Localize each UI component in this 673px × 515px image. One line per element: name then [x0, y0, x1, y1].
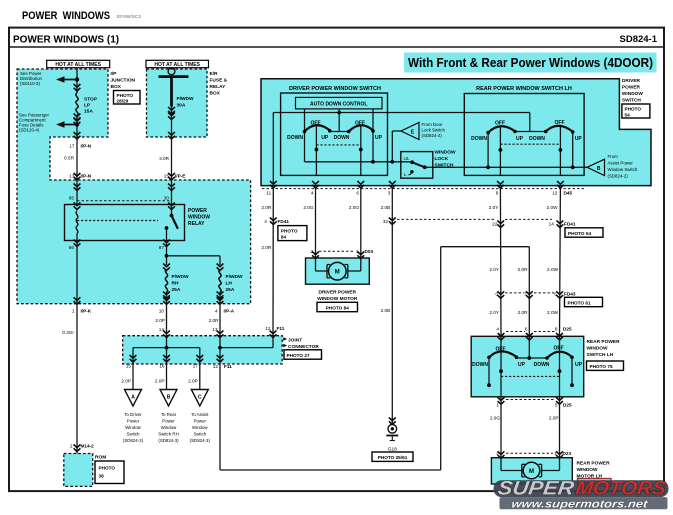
svg-text:16: 16 [159, 364, 165, 369]
svg-text:E/R: E/R [210, 71, 219, 77]
ADC stub right / driver right rocker UP contact [372, 109, 374, 162]
svg-text:WINDOW: WINDOW [188, 215, 210, 221]
feed to center bar [516, 336, 547, 360]
ground G18 [372, 425, 413, 462]
svg-text:To Rear: To Rear [161, 412, 177, 417]
rear motor LH side label [577, 461, 612, 487]
svg-text:STOP: STOP [84, 97, 98, 103]
ADC stub center / common bar [330, 109, 349, 132]
svg-text:L: L [404, 172, 407, 177]
triangle B from assist power window switch [587, 154, 638, 179]
svg-text:LOCK: LOCK [435, 156, 449, 162]
wire 2.0R pin11 down [261, 189, 276, 334]
svg-text:C: C [198, 395, 202, 401]
svg-text:P/WDW: P/WDW [177, 96, 195, 102]
svg-text:30: 30 [164, 195, 170, 200]
svg-text:2.0B: 2.0B [381, 205, 391, 210]
svg-text:D23: D23 [563, 451, 572, 456]
svg-text:(SD824-2): (SD824-2) [123, 438, 144, 443]
wire: left battery feed down I/P junction box [74, 68, 81, 205]
svg-text:15: 15 [126, 364, 132, 369]
svg-text:2.0B: 2.0B [381, 308, 391, 313]
wires into joint connector [163, 303, 223, 361]
rear right rocker switch [529, 120, 582, 176]
joint connector label [283, 337, 321, 359]
wire: right battery feed E/R fuse box [159, 68, 189, 205]
svg-text:DOWN: DOWN [287, 135, 303, 141]
rear switch LH side label [587, 339, 624, 370]
svg-text:86: 86 [69, 245, 75, 250]
svg-text:D45: D45 [564, 191, 573, 196]
svg-text:WINDOW: WINDOW [435, 150, 457, 156]
svg-text:WINDOW: WINDOW [577, 467, 599, 473]
svg-text:2: 2 [496, 451, 499, 456]
svg-text:LH: LH [226, 281, 233, 287]
wire 2.0B pin3 to ground [381, 189, 396, 425]
svg-text:17: 17 [69, 143, 75, 148]
svg-text:PHOTO 54: PHOTO 54 [568, 231, 591, 236]
svg-text:2.0O: 2.0O [349, 205, 360, 210]
svg-text:CONNECTOR: CONNECTOR [288, 344, 319, 350]
svg-text:2.0G: 2.0G [490, 415, 501, 420]
svg-text:I/P-N: I/P-N [81, 173, 92, 178]
svg-text:4: 4 [264, 219, 267, 224]
svg-text:FD41: FD41 [278, 219, 290, 224]
driver motor connector pins 2 / 1 D03 [310, 249, 373, 254]
svg-text:B: B [597, 166, 601, 172]
svg-text:OFF: OFF [355, 120, 365, 126]
svg-text:UP: UP [575, 362, 583, 368]
auto down control U2 [296, 97, 383, 109]
svg-text:I/P: I/P [111, 71, 118, 77]
joint connector internals [130, 331, 277, 363]
svg-text:M: M [529, 469, 534, 475]
svg-text:LP: LP [84, 103, 91, 109]
see passenger compartment fuse details arrow [19, 113, 77, 133]
I/P JUNCTION BOX label [111, 71, 141, 104]
svg-text:PHOTO 27: PHOTO 27 [287, 353, 310, 358]
svg-text:84: 84 [281, 235, 287, 240]
DRIVER POWER WINDOW SWITCH side label [622, 78, 650, 118]
connector FD43 row [495, 291, 602, 306]
driver switch inner box [281, 93, 388, 175]
svg-text:9: 9 [496, 191, 499, 196]
svg-text:D25: D25 [563, 327, 572, 332]
svg-text:AUTO DOWN CONTROL: AUTO DOWN CONTROL [310, 102, 367, 108]
relay pin dashed line [77, 200, 172, 202]
svg-text:BOX: BOX [210, 91, 221, 97]
svg-text:BOX: BOX [111, 84, 122, 90]
svg-text:2.0P: 2.0P [121, 378, 131, 383]
rear lower left rocker [472, 336, 525, 397]
svg-text:25A: 25A [172, 287, 181, 293]
svg-text:WINDOW MOTOR: WINDOW MOTOR [317, 296, 358, 302]
wire 2.0Y rear switch pin9 down [489, 189, 505, 340]
svg-text:ROM: ROM [95, 455, 106, 461]
photo 54 box [565, 228, 603, 237]
svg-text:2.0R: 2.0R [518, 267, 529, 272]
svg-text:1: 1 [554, 451, 557, 456]
master switch connector dashed line [262, 188, 586, 190]
svg-text:22: 22 [492, 221, 498, 226]
svg-text:UP: UP [375, 135, 383, 141]
svg-text:UP: UP [575, 136, 583, 142]
rear rocker contact stubs to common [488, 132, 573, 167]
common return line in driver switch [305, 160, 413, 164]
svg-text:PHOTO 25/61: PHOTO 25/61 [378, 455, 408, 460]
svg-text:4: 4 [496, 327, 499, 332]
triangle C to assist power window switch [190, 390, 211, 444]
svg-text:5: 5 [554, 292, 557, 297]
svg-text:5: 5 [555, 402, 558, 407]
svg-text:(SD824-3): (SD824-3) [158, 438, 179, 443]
svg-text:2.0P: 2.0P [188, 378, 198, 383]
svg-text:POWER WINDOWS: POWER WINDOWS [22, 10, 110, 22]
rear left rocker switch [471, 121, 523, 176]
svg-text:3: 3 [388, 191, 391, 196]
svg-text:2.0P: 2.0P [155, 378, 165, 383]
svg-text:(SD824-2): (SD824-2) [608, 174, 629, 179]
svg-text:RELAY: RELAY [188, 221, 205, 227]
wire 2.0G to rear motor [490, 397, 505, 459]
joint connector cyan box [123, 336, 283, 364]
svg-text:REAR POWER WINDOW SWITCH LH: REAR POWER WINDOW SWITCH LH [476, 86, 572, 92]
rear power window motor LH cyan box [491, 458, 572, 484]
svg-text:OFF: OFF [554, 346, 564, 352]
svg-text:PHOTO 75: PHOTO 75 [590, 364, 613, 369]
svg-text:13: 13 [212, 327, 218, 332]
svg-text:UL: UL [404, 156, 410, 161]
svg-text:Switch RH: Switch RH [158, 432, 179, 437]
svg-text:OFF: OFF [311, 120, 321, 126]
svg-text:1: 1 [496, 402, 499, 407]
svg-text:M14-2: M14-2 [81, 444, 95, 449]
relay coil [74, 184, 81, 247]
svg-text:DRIVER: DRIVER [622, 78, 641, 84]
ADC stub left / driver left rocker DOWN contact [304, 109, 306, 162]
svg-text:2.0R: 2.0R [261, 205, 272, 210]
svg-text:(SD824-2): (SD824-2) [422, 133, 443, 138]
svg-text:OFF: OFF [495, 121, 505, 127]
svg-text:2: 2 [70, 444, 73, 449]
svg-text:6: 6 [356, 191, 359, 196]
svg-text:SWITCH LH: SWITCH LH [587, 352, 614, 358]
rear power window motor LH M2 [501, 458, 560, 479]
svg-text:DOWN: DOWN [472, 362, 488, 368]
driver power window motor M1 [316, 258, 361, 312]
master switch cyan block [261, 79, 651, 186]
wire 12 F11 long run to rear feed [220, 247, 529, 470]
svg-text:WINDOW: WINDOW [622, 91, 644, 97]
svg-text:2.0W: 2.0W [547, 205, 559, 210]
svg-text:10: 10 [159, 309, 165, 314]
svg-text:P/WDW: P/WDW [226, 274, 244, 280]
svg-text:OFF: OFF [496, 346, 506, 352]
HOT AT ALL TIMES box right [146, 60, 209, 68]
svg-text:UP: UP [321, 135, 329, 141]
svg-text:PHOTO: PHOTO [281, 228, 298, 233]
svg-text:MOTORS: MOTORS [574, 478, 667, 500]
banner [404, 53, 657, 73]
svg-text:F11: F11 [277, 326, 285, 331]
relay contact [77, 184, 178, 247]
svg-text:HOT AT ALL TIMES: HOT AT ALL TIMES [154, 62, 200, 68]
wire 2.0R rear feed down [518, 247, 533, 340]
svg-text:Window: Window [125, 425, 141, 430]
svg-text:SWITCH: SWITCH [622, 98, 641, 104]
svg-text:2: 2 [310, 249, 313, 254]
svg-text:POWER WINDOWS (1): POWER WINDOWS (1) [13, 35, 119, 46]
svg-text:POWER: POWER [622, 85, 641, 91]
svg-text:Lock Switch: Lock Switch [422, 128, 446, 133]
svg-text:PHOTO 84: PHOTO 84 [326, 306, 349, 311]
svg-text:14: 14 [549, 221, 555, 226]
svg-text:FUSE &: FUSE & [210, 78, 228, 84]
svg-text:2.0W: 2.0W [547, 310, 559, 315]
E/R FUSE RELAY BOX label [210, 71, 228, 97]
svg-text:JOINT: JOINT [288, 337, 302, 343]
svg-text:F11: F11 [224, 364, 232, 369]
svg-text:From: From [608, 154, 619, 159]
svg-text:To Driver: To Driver [124, 412, 142, 417]
svg-text:UP: UP [516, 136, 524, 142]
svg-text:(SD120-4): (SD120-4) [19, 128, 40, 133]
svg-text:14: 14 [159, 327, 165, 332]
master switch exit chevrons [270, 181, 564, 188]
svg-text:D25: D25 [563, 402, 572, 407]
svg-text:DOWN: DOWN [529, 136, 545, 142]
svg-text:P/WDW: P/WDW [172, 274, 190, 280]
HOT AT ALL TIMES box left [47, 60, 110, 68]
svg-text:POWER: POWER [188, 208, 207, 214]
svg-text:To Assist: To Assist [191, 412, 209, 417]
triangle B to rear power window switch RH [158, 390, 179, 444]
wire 0.3Gr down to ROM [62, 303, 80, 453]
svg-text:DOWN: DOWN [534, 362, 550, 368]
svg-text:2.0R: 2.0R [261, 245, 272, 250]
svg-text:38: 38 [99, 474, 105, 479]
svg-text:From Door: From Door [422, 122, 444, 127]
svg-text:2.0Y: 2.0Y [489, 267, 500, 272]
svg-text:I/P-A: I/P-A [224, 309, 235, 314]
fuse P/WDW RH 25A [163, 264, 189, 305]
svg-text:I/P-N: I/P-N [81, 143, 92, 148]
driver left rocker switch [287, 120, 331, 175]
rocker mechanical link dashed [316, 144, 360, 146]
connector D25 top row [496, 327, 572, 332]
window lock switch S1 [401, 150, 456, 179]
svg-text:85: 85 [69, 195, 75, 200]
svg-text:2.0Y: 2.0Y [489, 205, 500, 210]
rear lower mechanical link dashed [501, 375, 560, 377]
triangle A to driver power window switch [123, 390, 144, 444]
svg-text:12: 12 [552, 191, 558, 196]
svg-text:PHOTO: PHOTO [625, 107, 642, 112]
svg-text:2.0G: 2.0G [303, 205, 314, 210]
ROM cyan box [64, 454, 93, 487]
svg-text:Window: Window [192, 425, 208, 430]
fusible link P/WDW 30A [177, 96, 195, 109]
rear power window switch LH cyan box [471, 336, 584, 397]
svg-text:DRIVER POWER: DRIVER POWER [319, 289, 357, 295]
svg-text:2.0Y: 2.0Y [489, 310, 500, 315]
wire 2.0P to rear motor [549, 397, 563, 459]
svg-text:Window: Window [161, 425, 177, 430]
svg-text:0.5R: 0.5R [64, 156, 75, 161]
power window relay U1 [65, 205, 211, 241]
fuse P/WDW LH 25A [217, 264, 243, 305]
svg-text:UP: UP [518, 362, 526, 368]
svg-text:B: B [167, 395, 171, 401]
svg-text:FD43: FD43 [564, 291, 576, 296]
I/P junction box cyan region (left fuse + relay area) [17, 69, 251, 304]
connector dashed line FD41/FD41 row [397, 218, 552, 220]
svg-text:Switch: Switch [127, 432, 140, 437]
svg-text:WINDOW: WINDOW [587, 346, 609, 352]
svg-text:25A: 25A [226, 287, 235, 293]
svg-text:www.supermotors.net: www.supermotors.net [511, 498, 650, 510]
triangle E from door lock switch [401, 122, 445, 140]
see power distribution arrow [20, 71, 77, 86]
svg-text:RELAY: RELAY [210, 84, 227, 90]
wire relay output junction [74, 241, 220, 305]
svg-text:(SD110-3): (SD110-3) [20, 81, 40, 86]
wire 2.0O pin6 to motor [349, 189, 364, 259]
svg-text:3.0R: 3.0R [159, 156, 170, 161]
svg-text:I/P-E: I/P-E [175, 173, 185, 178]
svg-text:2.0P: 2.0P [549, 415, 559, 420]
svg-text:I/P-K: I/P-K [81, 309, 92, 314]
svg-text:PHOTO: PHOTO [99, 466, 116, 471]
svg-text:Power: Power [127, 419, 140, 424]
wire 2.0W rear switch pin12 down [547, 189, 564, 340]
supermotors watermark [494, 478, 669, 511]
wires 2.0P to triangles [121, 361, 199, 390]
svg-text:PHOTO: PHOTO [117, 93, 134, 98]
svg-text:15: 15 [164, 173, 170, 178]
svg-text:Assist Power: Assist Power [608, 161, 634, 166]
photo 84 box left [278, 226, 307, 241]
svg-text:32: 32 [383, 219, 389, 224]
rear motor connector pins 2 / 1 D23 [496, 451, 571, 456]
svg-text:D03: D03 [365, 249, 374, 254]
svg-text:4: 4 [311, 191, 314, 196]
rear switch feed and common bar [515, 113, 546, 132]
svg-text:0.3Gr: 0.3Gr [62, 330, 74, 335]
svg-text:FD41: FD41 [564, 221, 576, 226]
svg-text:PHOTO 61: PHOTO 61 [568, 301, 591, 306]
svg-text:A: A [131, 395, 135, 401]
svg-text:DOWN: DOWN [334, 135, 350, 141]
svg-text:30A: 30A [177, 103, 186, 109]
rear switch bottom pins 1 / 5 D25 [496, 397, 572, 407]
svg-text:Power: Power [194, 419, 207, 424]
svg-text:With Front & Rear Power Window: With Front & Rear Power Windows (4DOOR) [408, 55, 653, 70]
svg-text:15A: 15A [84, 109, 93, 115]
svg-text:4: 4 [215, 309, 218, 314]
svg-text:54: 54 [625, 113, 631, 118]
svg-text:SD824-1: SD824-1 [620, 34, 658, 45]
svg-text:DRIVER POWER WINDOW SWITCH: DRIVER POWER WINDOW SWITCH [289, 86, 381, 92]
E/R fuse and relay box cyan region [147, 69, 208, 137]
svg-text:11: 11 [266, 191, 271, 196]
rear switch inner box [464, 94, 584, 176]
svg-text:1: 1 [356, 249, 359, 254]
svg-text:HOT AT ALL TIMES: HOT AT ALL TIMES [55, 62, 101, 68]
wire to E triangle [392, 131, 401, 162]
svg-text:REAR POWER: REAR POWER [587, 339, 621, 345]
svg-text:M: M [335, 270, 340, 276]
svg-text:JUNCTION: JUNCTION [111, 78, 136, 84]
svg-text:Switch: Switch [193, 432, 206, 437]
svg-text:OFF: OFF [555, 120, 565, 126]
svg-text:DOWN: DOWN [471, 136, 487, 142]
svg-text:2.0P: 2.0P [155, 318, 165, 323]
svg-text:RH: RH [172, 281, 179, 287]
svg-text:87: 87 [159, 245, 165, 250]
svg-text:12: 12 [213, 364, 219, 369]
rear lower contact stubs [487, 357, 574, 387]
svg-text:Power: Power [162, 419, 175, 424]
wire supply feed from pin 11 to rear switch [273, 111, 530, 184]
svg-text:7: 7 [524, 292, 527, 297]
svg-text:6: 6 [495, 292, 498, 297]
svg-text:28/29: 28/29 [117, 98, 129, 103]
svg-text:13: 13 [69, 173, 75, 178]
svg-text:Window Switch: Window Switch [608, 167, 638, 172]
rear lower right rocker [534, 336, 583, 397]
svg-text:2.0R: 2.0R [518, 310, 529, 315]
rear rocker mechanical link dashed [500, 143, 560, 145]
svg-text:6: 6 [525, 327, 528, 332]
driver right rocker switch [334, 120, 383, 175]
svg-text:8: 8 [555, 327, 558, 332]
svg-text:G18: G18 [388, 446, 397, 451]
svg-text:2.0R: 2.0R [209, 318, 220, 323]
wire 2.0G pin4 to motor [303, 189, 319, 259]
svg-text:2.0W: 2.0W [547, 267, 559, 272]
svg-text:(SD824-3): (SD824-3) [190, 438, 211, 443]
svg-text:17: 17 [193, 364, 199, 369]
window lock switch output line [425, 165, 587, 169]
ROM label [95, 455, 124, 484]
svg-text:EF4W/SC2: EF4W/SC2 [117, 14, 141, 20]
driver power window motor cyan box [306, 258, 370, 284]
fuse STOP LP 15A [76, 93, 98, 116]
svg-text:1: 1 [72, 309, 75, 314]
svg-text:SUPER: SUPER [496, 478, 575, 500]
svg-text:REAR POWER: REAR POWER [577, 461, 611, 467]
